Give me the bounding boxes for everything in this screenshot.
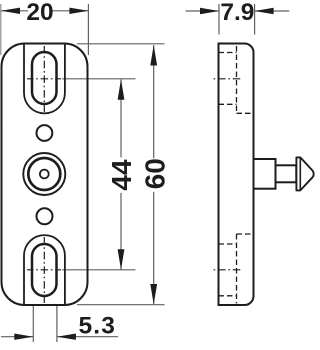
front view: top slot	[32, 52, 57, 104]
dimension 20: right arrowhead	[69, 8, 88, 14]
dimension 7.9: left tail with inward arrowhead	[186, 10, 220, 12]
front view: central boss inner circle	[28, 158, 60, 190]
dimension 20: right extension line	[87, 4, 89, 55]
svg-text:5.3: 5.3	[78, 313, 116, 340]
dimension 60: bottom extension line	[77, 304, 165, 306]
dimension 60: up arrowhead	[150, 45, 157, 66]
dimension 44: dimension line upper segment	[120, 80, 122, 158]
side view: hidden line, top recess bottom	[237, 112, 254, 114]
front view: bottom slot	[32, 244, 57, 296]
dimension 5.3: left extension line	[32, 306, 34, 343]
side view: hidden line, bottom slot lower edge	[219, 295, 237, 297]
dimension 20: dimension line right tail	[52, 10, 88, 12]
side view: top slot centreline	[212, 78, 243, 80]
front view: bottom recess channel (outer U)	[24, 235, 65, 305]
dimension 7.9: right tail with inward arrowhead	[255, 10, 290, 12]
dimension 20: left extension line	[0, 4, 2, 55]
front view: top slot vertical centreline	[43, 46, 45, 112]
dimension 20: left arrowhead	[1, 8, 20, 14]
front view: top slot horizontal centreline	[27, 78, 61, 80]
dimension 7.9: left extension line	[218, 4, 220, 35]
side view: bottom slot centreline	[212, 269, 243, 271]
svg-text:20: 20	[26, 0, 53, 26]
side view: hidden line, recess floor (top)	[236, 46, 238, 113]
side view: stud base block	[254, 159, 276, 189]
svg-text:44: 44	[106, 159, 137, 191]
front view: top recess channel (outer U)	[24, 44, 65, 114]
dimension 5.3: right extension line	[56, 306, 58, 343]
side view: stud head flange inner edge	[299, 157, 301, 190]
dimension 44: dimension line lower segment	[120, 193, 122, 270]
front view: lower small hole	[37, 208, 53, 224]
svg-text:7.9: 7.9	[220, 0, 254, 26]
dimension 20: dimension line left tail	[1, 10, 28, 12]
front view: bottom slot horizontal centreline	[27, 269, 61, 271]
front view: central boss outer circle	[23, 153, 65, 195]
side view: hidden line, bottom slot upper edge	[219, 243, 237, 245]
dimension 44: upper extension line (slot centreline continuation)	[62, 78, 136, 80]
side view: hidden line, bottom recess top	[237, 233, 254, 235]
svg-text:60: 60	[139, 158, 170, 189]
dimension 60: down arrowhead	[150, 284, 157, 305]
dimension 5.3: right tail with inward arrowhead	[57, 336, 118, 338]
dimension 44: up arrowhead	[118, 79, 125, 100]
side view: hidden line, recess floor (bottom)	[236, 234, 238, 304]
side view: hidden line, top slot upper edge	[219, 52, 237, 54]
front view: bottom slot vertical centreline	[43, 237, 45, 303]
dimension 44: lower extension line (slot centreline continuation)	[62, 269, 136, 271]
dimension 44: down arrowhead	[118, 249, 125, 269]
dimension 7.9: right extension line	[254, 4, 256, 35]
side view: body outline	[219, 44, 254, 306]
dimension 60: top extension line	[77, 43, 165, 45]
dimension 60: dimension line lower segment	[153, 192, 155, 305]
front view: plate outline	[2, 44, 88, 306]
front view: central pilot hole	[40, 170, 49, 179]
side view: stud shaft	[276, 165, 297, 182]
side view: hidden line, top slot lower edge	[219, 103, 237, 105]
side view: stud conical head	[296, 157, 313, 190]
dimension 60: dimension line upper segment	[153, 45, 155, 158]
front view: upper small hole	[37, 125, 53, 141]
dimension 5.3: left tail with inward arrowhead	[1, 336, 33, 338]
